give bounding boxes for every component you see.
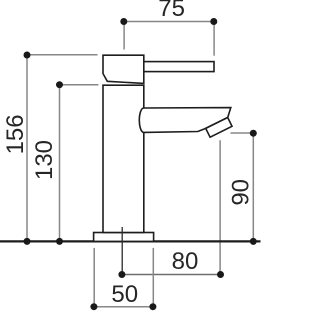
svg-text:50: 50 — [111, 281, 138, 308]
svg-text:80: 80 — [172, 248, 199, 275]
svg-text:156: 156 — [2, 114, 29, 154]
svg-text:90: 90 — [227, 179, 254, 206]
svg-text:75: 75 — [158, 0, 185, 22]
svg-text:130: 130 — [31, 140, 58, 180]
